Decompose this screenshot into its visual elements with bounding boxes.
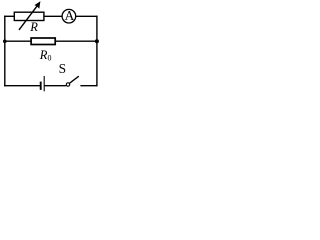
svg-text:R: R: [29, 20, 38, 34]
wire: bottom left segment: [4, 85, 40, 87]
rheostat arrowhead: [34, 1, 40, 9]
switch lever: [70, 76, 79, 83]
wire: middle right segment: [55, 40, 97, 42]
ammeter A: [62, 9, 76, 23]
resistor R0 body: [31, 38, 55, 45]
node: right junction: [95, 39, 99, 43]
battery positive plate (long thin): [43, 76, 45, 91]
node: left junction: [3, 40, 7, 44]
battery negative plate (short thick): [40, 82, 42, 90]
switch S pivot: [66, 83, 69, 86]
wire: right rail: [96, 16, 98, 87]
resistor R (rheostat body): [14, 12, 44, 20]
wire: bottom right segment: [80, 85, 97, 87]
wire: left rail: [4, 16, 6, 87]
wire: top middle segment: [44, 15, 62, 17]
svg-text:R0: R0: [39, 48, 52, 63]
wire: top left segment: [4, 15, 14, 17]
svg-text:S: S: [59, 61, 66, 76]
wire: bottom middle segment: [44, 85, 66, 87]
rheostat arrow shaft: [19, 5, 38, 30]
wire: middle left segment: [4, 40, 31, 42]
svg-text:A: A: [64, 8, 74, 23]
wire: top right segment: [76, 15, 98, 17]
